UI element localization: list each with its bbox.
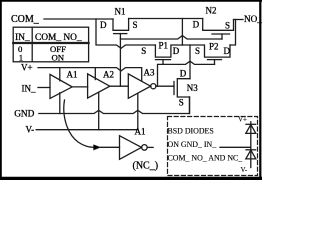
- svg-text:V+: V+: [238, 116, 247, 124]
- op-amp inverter A3: [128, 68, 156, 99]
- svg-text:V+: V+: [21, 63, 33, 73]
- svg-text:V-: V-: [241, 166, 248, 174]
- svg-text:N2: N2: [206, 6, 217, 16]
- svg-text:(NC_): (NC_): [133, 161, 159, 172]
- curved arrow from A1 to alternate inverter A1 (NC_): [64, 100, 101, 150]
- wire mid node branch down to P leads (crossing N gate bus): [181, 19, 183, 46]
- transistor P1: [141, 41, 182, 65]
- note box BSD diodes (dashed): [168, 117, 258, 176]
- svg-text:GND: GND: [14, 110, 34, 120]
- svg-text:1: 1: [19, 52, 23, 62]
- wire COM_ to N1 drain: [44, 18, 113, 20]
- op-amp buffer A1: [50, 69, 78, 98]
- wire P gate bus from A3 output up and right to P1/P2 gates (hop over N3 drain wire): [158, 61, 215, 86]
- wire V+ bus (dip hop over N1 gate lead at x=121, corner down into A3): [38, 68, 142, 81]
- svg-text:NO_: NO_: [244, 14, 262, 24]
- wire A1 (NC_) output stub: [147, 146, 153, 148]
- svg-text:D: D: [100, 20, 107, 30]
- svg-text:IN_: IN_: [22, 84, 36, 94]
- svg-text:S: S: [195, 46, 200, 56]
- svg-text:A1: A1: [67, 69, 78, 79]
- wire V- bus (corner up into A3 bottom): [36, 93, 138, 129]
- wire A2 V+ supply: [94, 68, 96, 80]
- wire N2 source to NO_: [234, 19, 244, 21]
- svg-text:D: D: [180, 68, 187, 78]
- svg-text:IN_: IN_: [15, 33, 30, 43]
- wire diode chain vertical: [250, 122, 252, 168]
- svg-text:N3: N3: [187, 83, 198, 93]
- svg-text:V-: V-: [26, 124, 35, 134]
- svg-text:D: D: [173, 46, 180, 56]
- wire NO_ branch down to P2 drain: [230, 20, 236, 46]
- svg-text:S: S: [141, 46, 146, 56]
- svg-text:ON GND_ IN_: ON GND_ IN_: [168, 140, 217, 149]
- svg-text:BSD DIODES: BSD DIODES: [168, 127, 214, 136]
- svg-text:S: S: [133, 20, 138, 30]
- diode D1: [246, 124, 256, 133]
- transistor N1: [100, 7, 138, 87]
- svg-text:COM_ NO_ AND NC_: COM_ NO_ AND NC_: [168, 154, 243, 163]
- wire COM_ branch down to P1 source (dip hop over N1 gate lead): [96, 19, 155, 48]
- wire A3 output to N3 gate: [156, 85, 174, 87]
- op-amp inverter A1 (NC_ version): [120, 127, 159, 172]
- wire IN_ to A1 input: [38, 87, 50, 89]
- svg-text:P1: P1: [159, 41, 169, 51]
- svg-text:S: S: [225, 21, 230, 31]
- diode D2: [246, 150, 256, 159]
- wire A1 V+ supply: [59, 68, 61, 81]
- svg-text:D: D: [224, 46, 231, 56]
- svg-text:COM_: COM_: [11, 14, 40, 25]
- svg-text:A1: A1: [135, 127, 146, 137]
- transistor P2: [182, 42, 230, 65]
- op-amp buffer A2: [88, 69, 114, 98]
- wire diode mid tap: [220, 146, 251, 148]
- svg-text:S: S: [179, 98, 184, 108]
- wire N1 source to N2 drain (mid node top bus): [129, 18, 203, 20]
- wire A2 output to A3: [110, 85, 129, 87]
- wire N3 source drop to GND bus: [189, 97, 191, 114]
- svg-text:P2: P2: [209, 42, 219, 52]
- wire N3 drain up to P1/P2 mid node: [189, 45, 191, 79]
- transistor N2: [193, 6, 234, 39]
- wire N gate bus from N1 gate lead to N2 gate lead (hop over mid-node vertical): [120, 36, 222, 39]
- wire GND bus (hops over A2 and A3 V- drops, corner up to N3 source): [39, 97, 190, 114]
- svg-text:A2: A2: [103, 69, 114, 79]
- svg-text:N1: N1: [115, 7, 126, 17]
- border frame: [0, 0, 262, 2]
- svg-text:D: D: [193, 20, 200, 30]
- wire A2 V- supply: [98, 93, 100, 130]
- svg-text:A3: A3: [144, 68, 155, 78]
- svg-text:ON: ON: [52, 52, 65, 62]
- wire arrow to A1 inverter input: [101, 146, 120, 148]
- svg-text:COM_ NO_: COM_ NO_: [35, 33, 82, 43]
- wire A1 GND supply: [59, 93, 61, 114]
- wire A1 output to A2: [72, 86, 87, 88]
- transistor N3: [174, 68, 198, 107]
- truth table: [13, 27, 88, 62]
